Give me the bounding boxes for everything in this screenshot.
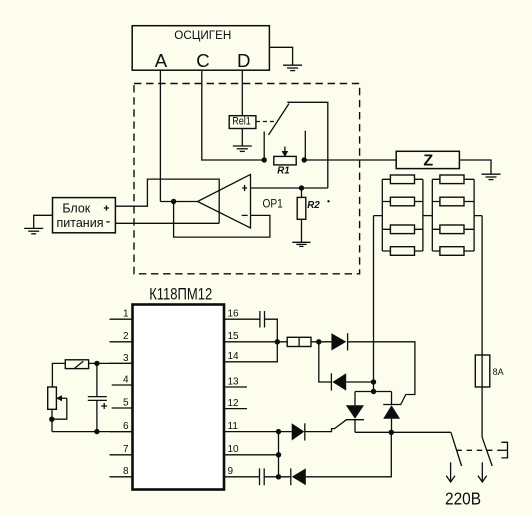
svg-text:C: C <box>196 50 209 71</box>
ground (relay) <box>233 146 252 151</box>
resistor bank right R-b <box>440 197 464 206</box>
wire relay to ground <box>241 129 243 146</box>
ground (oscillator) <box>283 65 302 70</box>
right switch blade <box>482 437 492 466</box>
node D2 junction <box>371 379 376 384</box>
svg-text:R1: R1 <box>277 165 289 176</box>
wire power - rail <box>115 222 219 224</box>
svg-text:8: 8 <box>123 466 129 477</box>
resistor bank right R-d <box>440 247 464 256</box>
resistor bank left R-a <box>390 175 414 184</box>
pin 12 <box>224 398 247 409</box>
wire thermistor to potentiometer <box>52 363 65 387</box>
diode D1 (to right) <box>331 333 347 350</box>
pin 15 <box>224 331 287 342</box>
svg-text:питания: питания <box>57 216 104 230</box>
svg-text:11: 11 <box>228 421 239 432</box>
wire right tap down to fuse and switch <box>474 216 482 438</box>
pin 10 <box>224 444 279 455</box>
node pin9 <box>276 474 281 479</box>
impedance box Z <box>396 151 459 169</box>
svg-text:3: 3 <box>123 353 129 364</box>
pin 11 <box>224 421 292 432</box>
potentiometer R1 <box>274 147 296 177</box>
node R1 left <box>262 157 267 162</box>
wire resistor to diode D1 <box>311 341 331 343</box>
pin 8 <box>110 466 133 477</box>
svg-text:14: 14 <box>228 351 240 362</box>
dashed relay link <box>256 121 275 123</box>
thermistor on pin 3 <box>65 360 132 369</box>
svg-text:7: 7 <box>123 444 129 455</box>
capacitor C1 on pin 16 <box>260 311 265 328</box>
switch S1 blade <box>269 104 290 136</box>
wire op-amp output <box>160 201 197 203</box>
wire left tap down to triac rail <box>374 216 383 392</box>
svg-text:Блок: Блок <box>62 201 90 215</box>
oscillator box ОСЦИГЕН <box>132 26 269 70</box>
svg-text:OP1: OP1 <box>263 197 283 211</box>
svg-text:16: 16 <box>228 309 240 320</box>
dashed switch link <box>456 449 500 451</box>
node pin6 <box>94 429 99 434</box>
node pin10 <box>276 452 281 457</box>
node triac top rail <box>371 389 376 394</box>
svg-text:A: A <box>155 50 168 71</box>
svg-text:2: 2 <box>123 331 129 342</box>
wire D3 to left triac gate <box>305 420 347 432</box>
svg-text:Rel1: Rel1 <box>232 116 251 128</box>
wire triac bottom rail to left switch <box>355 431 451 433</box>
pin 13 <box>224 376 247 387</box>
relay Rel1 <box>229 116 256 129</box>
ground (R2) <box>292 242 310 246</box>
fuse 8A <box>475 355 504 387</box>
resistor bank left column connectors <box>382 179 423 251</box>
op-amp U1 OP1 <box>198 174 283 228</box>
wire triac bottom down to pin9 row <box>306 432 392 477</box>
svg-text:9: 9 <box>228 466 234 477</box>
svg-text:R2: R2 <box>307 200 320 211</box>
wire power + rail <box>115 179 219 223</box>
resistor bank left R-d <box>390 247 414 256</box>
switch S1 top wire <box>287 102 328 188</box>
node pin3 <box>94 361 99 366</box>
ground (power supply) <box>24 228 43 233</box>
wire node to diode D2 <box>319 342 332 382</box>
node after resistor <box>316 339 321 344</box>
node R2 top <box>299 185 304 190</box>
ground (Z) <box>482 174 501 179</box>
svg-text:10: 10 <box>228 444 240 455</box>
svg-text:13: 13 <box>228 376 240 387</box>
svg-text:D: D <box>237 50 250 71</box>
pin 16 <box>224 309 260 320</box>
wire bottom to pin 6 <box>52 431 133 433</box>
capacitor C2 on pin 9 <box>260 468 265 485</box>
node pin15 <box>275 339 280 344</box>
resistor bank left column rails <box>381 179 383 251</box>
wire R1 node to Z box <box>304 159 396 161</box>
wire D (osc pin D down to relay) <box>241 70 243 116</box>
svg-text:220В: 220В <box>445 489 481 509</box>
right switch arrow <box>478 462 487 482</box>
node pin11 <box>276 429 281 434</box>
svg-text:8А: 8А <box>493 367 505 378</box>
resistor bank right column connectors <box>432 179 474 251</box>
stray dot <box>327 200 329 202</box>
svg-text:К118ПМ12: К118ПМ12 <box>149 286 212 304</box>
node R1 right <box>302 157 307 162</box>
svg-text:Z: Z <box>423 153 433 170</box>
capacitor C3 polarized <box>88 363 107 431</box>
pin 1 <box>110 309 133 320</box>
wire op-amp + input to R2 top <box>251 187 328 189</box>
pin 3 <box>110 353 133 364</box>
resistor R2 <box>297 188 320 242</box>
left switch arrow <box>446 462 455 482</box>
wire Z to ground <box>459 160 491 174</box>
wire C (osc pin C down and right to R1 left node) <box>202 70 264 160</box>
node op-amp output <box>171 199 176 204</box>
svg-text:12: 12 <box>228 398 240 409</box>
resistor bank right R-a <box>440 175 464 184</box>
thyristor V2 (up) <box>383 392 400 433</box>
wire from oscillator right to ground <box>269 47 292 65</box>
svg-text:1: 1 <box>123 309 129 320</box>
wire power supply to ground <box>34 215 53 228</box>
node triac bottom <box>389 430 394 435</box>
wire A (osc pin A down to op-amp output node) <box>159 70 161 201</box>
node pot bottom <box>49 417 54 422</box>
svg-text:5: 5 <box>123 397 129 408</box>
diode D4 (to left) <box>291 468 306 485</box>
resistor bank left R-c <box>390 225 414 234</box>
wire pin16 cap to node 15 <box>265 319 278 342</box>
wire D2 to triac rail node <box>346 381 373 383</box>
thyristor V1 (down) <box>346 392 364 433</box>
svg-text:15: 15 <box>228 331 240 342</box>
resistor bank right R-c <box>440 225 464 234</box>
svg-text:4: 4 <box>123 374 129 385</box>
left switch blade <box>451 432 462 466</box>
wire feedback loop output to inverting input <box>174 202 270 238</box>
IC К118ПМ12 body <box>133 305 225 490</box>
resistor bank right column rails <box>431 179 433 251</box>
pin 4 <box>112 374 133 385</box>
switch S1 left post <box>263 132 265 161</box>
pin 6 <box>110 421 133 432</box>
svg-text:ОСЦИГЕН: ОСЦИГЕН <box>174 28 231 42</box>
wire bus pins 11-9 <box>278 432 280 477</box>
dashed enclosure box <box>134 84 360 274</box>
diode D3 (to right) <box>292 423 305 440</box>
pin 7 <box>110 444 133 455</box>
power supply box <box>53 198 116 233</box>
pin 14 <box>224 342 277 362</box>
connector bracket <box>501 442 507 458</box>
diode D2 (to left) <box>331 373 346 390</box>
wire cap to node <box>264 476 291 478</box>
potentiometer <box>48 387 67 432</box>
pin 9 <box>224 466 260 477</box>
resistor on pin 15 <box>287 337 311 346</box>
wire middle link between columns <box>423 215 432 217</box>
switch S1 right post <box>304 131 306 160</box>
resistor bank left R-b <box>390 197 414 206</box>
svg-text:6: 6 <box>123 421 129 432</box>
wire D1 to right triac gate <box>348 342 415 405</box>
pin 5 <box>112 397 133 408</box>
wire triac top rail <box>355 391 392 393</box>
pin 2 <box>110 331 133 342</box>
